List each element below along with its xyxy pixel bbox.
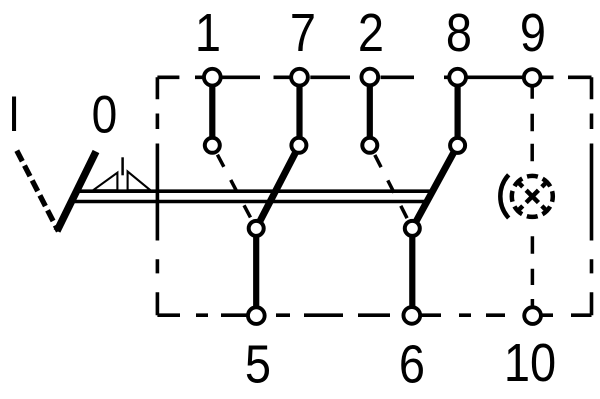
svg-text:10: 10 bbox=[504, 332, 556, 393]
detent symbol: left triangle bbox=[93, 173, 117, 191]
svg-text:I: I bbox=[8, 86, 20, 141]
switch body outline: right edge (dashed) bbox=[590, 77, 594, 315]
detent symbol: right triangle bbox=[128, 172, 151, 191]
wire: terminal 8 to contact bbox=[455, 77, 461, 145]
lever position 0 (solid stroke) bbox=[57, 152, 96, 232]
svg-text:2: 2 bbox=[358, 2, 384, 63]
terminal 2 bbox=[361, 69, 378, 86]
wire: pivot to terminal 5 bbox=[253, 228, 259, 315]
terminal 9 bbox=[524, 69, 541, 86]
wire: dashed lamp feed from lamp down to terminal 10 bbox=[531, 236, 535, 306]
lamp (dashed circle with X and reflector arc) bbox=[500, 175, 552, 218]
wire: pivot to terminal 6 bbox=[409, 228, 415, 315]
switch body outline: bottom edge (dashed) bbox=[157, 313, 591, 317]
wire: terminal 1 to contact bbox=[209, 77, 215, 145]
terminal 1 bbox=[204, 69, 221, 86]
wire: terminal 7 to contact bbox=[296, 77, 302, 145]
wire: terminal 2 to contact bbox=[367, 77, 373, 145]
detent symbol: center tick bbox=[121, 157, 124, 175]
actuator bar (double line) bbox=[70, 191, 433, 201]
svg-text:7: 7 bbox=[290, 2, 316, 63]
terminal 10 bbox=[524, 307, 541, 324]
lever position I (dashed stroke) bbox=[17, 151, 59, 232]
contact circle 1 bbox=[205, 138, 220, 153]
terminal 8 bbox=[449, 69, 466, 86]
terminal 5 bbox=[248, 307, 265, 324]
contact arm 2-6 (open, dashed) bbox=[370, 145, 413, 228]
wire: dashed lamp feed from terminal 9 down to lamp bbox=[530, 87, 534, 162]
switch body outline: left edge (dashed) bbox=[156, 77, 160, 315]
svg-text:6: 6 bbox=[399, 333, 425, 394]
terminal 7 bbox=[291, 69, 308, 86]
svg-text:8: 8 bbox=[446, 2, 472, 63]
switch body outline: top edge (dashed) bbox=[157, 76, 591, 80]
terminal 6 bbox=[403, 307, 420, 324]
svg-text:9: 9 bbox=[520, 2, 546, 63]
contact arm 7-5 (closed, solid) bbox=[256, 145, 299, 229]
pivot circle 6 bbox=[405, 221, 420, 236]
contact arm 1-5 (open, dashed) bbox=[212, 145, 256, 229]
contact circle 7 bbox=[291, 138, 306, 153]
svg-text:0: 0 bbox=[92, 84, 118, 144]
pivot circle 5 bbox=[249, 221, 264, 236]
contact circle 8 bbox=[450, 138, 465, 153]
svg-text:1: 1 bbox=[195, 2, 221, 63]
contact circle 2 bbox=[362, 138, 377, 153]
svg-text:5: 5 bbox=[245, 333, 271, 394]
contact arm 8-6 (closed, solid) bbox=[412, 145, 457, 228]
